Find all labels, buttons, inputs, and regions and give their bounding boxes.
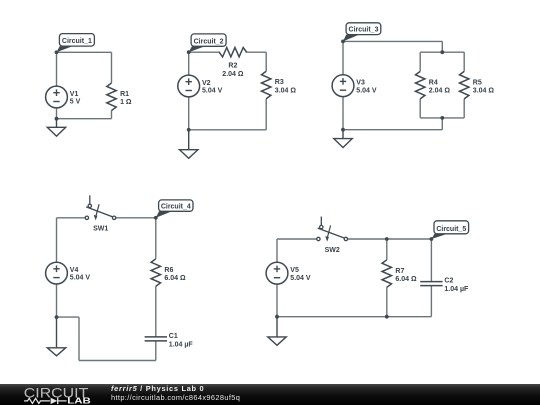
svg-text:1.04 µF: 1.04 µF xyxy=(169,341,194,348)
wire xyxy=(188,97,190,130)
wire xyxy=(57,217,86,219)
voltage source V2 xyxy=(178,75,223,97)
node Circuit_5 xyxy=(430,221,469,241)
svg-text:3.04 Ω: 3.04 Ω xyxy=(473,87,495,94)
ground xyxy=(47,119,65,136)
svg-text:1 Ω: 1 Ω xyxy=(120,99,132,106)
resistor R4 xyxy=(416,71,451,99)
wire xyxy=(57,316,80,318)
svg-text:5 V: 5 V xyxy=(70,99,81,106)
ground xyxy=(334,130,352,148)
svg-text:2.04 Ω: 2.04 Ω xyxy=(429,87,451,94)
junction xyxy=(55,117,59,121)
svg-text:1.04 µF: 1.04 µF xyxy=(444,286,469,293)
ground xyxy=(268,317,286,346)
wire xyxy=(57,118,112,120)
wire xyxy=(276,284,278,317)
wire xyxy=(79,360,156,362)
wire xyxy=(420,51,464,53)
wire xyxy=(277,238,317,240)
node Circuit_1 xyxy=(55,34,95,55)
wire xyxy=(246,51,267,53)
junction xyxy=(440,50,444,54)
wire xyxy=(56,52,58,86)
svg-text:http://circuitlab.com/c864x962: http://circuitlab.com/c864x9628uf5q xyxy=(111,393,240,402)
junction xyxy=(385,315,389,319)
svg-text:Circuit_3: Circuit_3 xyxy=(349,27,379,34)
wire xyxy=(155,218,157,259)
wire xyxy=(386,287,388,316)
wire xyxy=(265,99,267,130)
resistor R3 xyxy=(262,71,297,99)
wire xyxy=(78,317,80,360)
wire xyxy=(430,239,432,282)
wire xyxy=(441,118,443,130)
svg-text:V3: V3 xyxy=(356,80,365,87)
svg-text:5.04 V: 5.04 V xyxy=(202,88,223,95)
wire xyxy=(463,52,465,71)
svg-text:V5: V5 xyxy=(290,267,299,274)
ground xyxy=(180,130,198,159)
svg-text:LAB: LAB xyxy=(67,396,91,405)
svg-text:Circuit_4: Circuit_4 xyxy=(161,203,191,210)
svg-text:5.04 V: 5.04 V xyxy=(290,275,311,282)
svg-text:R1: R1 xyxy=(120,91,129,98)
wire xyxy=(155,341,157,361)
svg-text:2.04 Ω: 2.04 Ω xyxy=(222,71,244,78)
wire xyxy=(348,238,432,240)
wire xyxy=(56,218,58,262)
node Circuit_4 xyxy=(154,200,193,220)
resistor R5 xyxy=(460,71,495,99)
CircuitLab logo xyxy=(24,385,91,405)
svg-text:C1: C1 xyxy=(169,333,178,340)
svg-text:3.04 Ω: 3.04 Ω xyxy=(275,87,297,94)
capacitor C1 xyxy=(145,333,194,348)
capacitor C2 xyxy=(420,278,469,293)
wire xyxy=(386,239,388,260)
svg-text:R2: R2 xyxy=(228,63,237,70)
wire xyxy=(189,51,221,53)
svg-text:ferrir5 / Physics Lab 0: ferrir5 / Physics Lab 0 xyxy=(111,384,204,393)
svg-text:R7: R7 xyxy=(395,268,404,275)
wire xyxy=(342,97,344,130)
wire xyxy=(419,99,421,118)
svg-text:Circuit_1: Circuit_1 xyxy=(62,38,92,45)
wire xyxy=(419,52,421,71)
junction xyxy=(55,315,59,319)
wire xyxy=(189,129,267,131)
junction xyxy=(187,128,191,132)
wire xyxy=(56,284,58,317)
wire xyxy=(420,117,464,119)
junction xyxy=(275,315,279,319)
junction xyxy=(341,128,345,132)
resistor R6 xyxy=(151,259,186,287)
svg-text:6.04 Ω: 6.04 Ω xyxy=(395,276,417,283)
wire xyxy=(342,41,344,74)
node Circuit_2 xyxy=(187,34,226,54)
svg-text:6.04 Ω: 6.04 Ω xyxy=(164,275,186,282)
wire xyxy=(343,129,442,131)
svg-text:Circuit_2: Circuit_2 xyxy=(194,38,224,45)
svg-text:5.04 V: 5.04 V xyxy=(356,87,377,94)
wire xyxy=(430,286,432,317)
wire xyxy=(111,111,113,119)
switch SW1 xyxy=(85,195,116,232)
svg-text:SW2: SW2 xyxy=(325,247,340,254)
ground xyxy=(47,317,65,356)
wire xyxy=(277,316,431,318)
svg-text:SW1: SW1 xyxy=(93,226,108,233)
junction xyxy=(440,116,444,120)
wire xyxy=(111,52,113,83)
svg-text:V1: V1 xyxy=(70,91,79,98)
wire xyxy=(265,52,267,71)
wire xyxy=(188,52,190,75)
wire xyxy=(343,40,442,42)
voltage source V1 xyxy=(46,86,81,108)
switch SW2 xyxy=(317,217,348,254)
svg-text:V4: V4 xyxy=(70,267,79,274)
wire xyxy=(57,51,112,53)
wire xyxy=(116,217,156,219)
svg-text:R4: R4 xyxy=(429,79,438,86)
wire xyxy=(441,41,443,52)
voltage source V4 xyxy=(46,262,91,284)
svg-text:R6: R6 xyxy=(164,267,173,274)
svg-text:C2: C2 xyxy=(444,278,453,285)
voltage source V3 xyxy=(332,75,377,97)
wire xyxy=(276,239,278,262)
svg-text:R5: R5 xyxy=(473,79,482,86)
node Circuit_3 xyxy=(341,23,381,44)
resistor R1 xyxy=(107,83,132,111)
wire xyxy=(56,108,58,119)
svg-text:Circuit_5: Circuit_5 xyxy=(436,226,466,233)
svg-text:V2: V2 xyxy=(202,80,211,87)
svg-text:5.04 V: 5.04 V xyxy=(70,275,91,282)
wire xyxy=(463,99,465,118)
junction xyxy=(385,237,389,241)
wire xyxy=(155,286,157,337)
resistor R2 xyxy=(219,48,247,79)
svg-text:R3: R3 xyxy=(275,79,284,86)
resistor R7 xyxy=(382,260,417,288)
voltage source V5 xyxy=(266,262,311,284)
